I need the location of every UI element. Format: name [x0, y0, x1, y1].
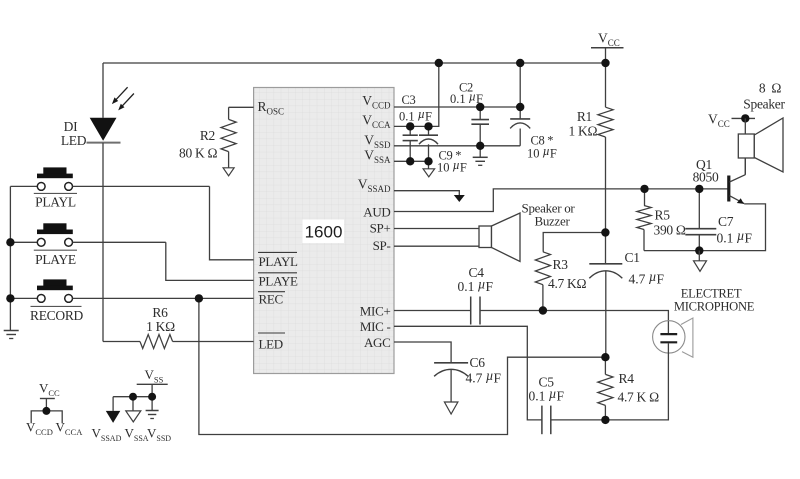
wire R3 to MIC+ line: [542, 285, 544, 311]
ground below C2: [479, 146, 481, 157]
capacitor C3: [409, 126, 411, 134]
wire PLAYL to IC: [210, 186, 254, 259]
label PLAYE: [34, 249, 77, 251]
svg-text:MICROPHONE: MICROPHONE: [674, 300, 755, 314]
svg-text:390 Ω: 390 Ω: [654, 223, 686, 238]
node legend VSS left: [129, 393, 137, 401]
svg-text:PLAYE: PLAYE: [259, 273, 299, 288]
svg-text:MIC+: MIC+: [360, 303, 391, 318]
wire MIC+ from IC: [394, 310, 470, 312]
svg-text:RECORD: RECORD: [30, 308, 84, 323]
wire C4 to microphone: [480, 311, 668, 334]
svg-text:VSS: VSS: [145, 367, 164, 385]
node R3/MIC+: [539, 306, 547, 314]
svg-text:10 µF: 10 µF: [437, 158, 467, 175]
svg-text:C7: C7: [718, 214, 734, 229]
pushbutton PLAYL: [10, 185, 37, 187]
arrow VSSAD down: [454, 195, 465, 202]
svg-text:C6: C6: [470, 355, 486, 370]
svg-text:REC: REC: [259, 291, 283, 306]
wire REC to bias node: [199, 298, 606, 434]
svg-text:R5: R5: [655, 208, 671, 223]
wire Rosc pin: [229, 106, 254, 108]
svg-text:C3: C3: [402, 93, 416, 107]
wire AUD net: [394, 189, 728, 212]
wire VCC to R1: [605, 63, 607, 107]
legend VCC symbol: [40, 398, 55, 400]
wire LED line to R6: [103, 341, 140, 343]
wire VSSA pin net: [394, 160, 429, 162]
svg-text:1 KΩ: 1 KΩ: [569, 124, 598, 139]
svg-text:0.1 µF: 0.1 µF: [458, 277, 494, 295]
svg-text:4.7 µF: 4.7 µF: [466, 368, 502, 386]
svg-text:R3: R3: [553, 257, 569, 272]
svg-text:VSSAD: VSSAD: [92, 426, 122, 444]
svg-text:1600: 1600: [305, 223, 343, 242]
node VSSD-C2: [476, 142, 484, 150]
capacitor C7: [698, 189, 700, 228]
svg-text:R1: R1: [577, 109, 592, 124]
pin label PLAYL: [258, 251, 297, 253]
wire MIC- net: [394, 326, 542, 420]
resistor R6: [140, 335, 173, 349]
svg-text:VSSD: VSSD: [147, 426, 171, 444]
svg-text:Buzzer: Buzzer: [534, 213, 570, 228]
node REC junction: [195, 294, 203, 302]
node VSSA-C3: [406, 157, 414, 165]
pushbutton PLAYE: [10, 241, 37, 243]
pushbutton RECORD: [10, 297, 37, 299]
svg-text:PLAYL: PLAYL: [35, 194, 76, 209]
wire speaker to collector: [744, 158, 746, 175]
svg-text:0.1 µF: 0.1 µF: [529, 386, 565, 404]
node VSSA-C9: [424, 157, 432, 165]
capacitor C4: [470, 297, 472, 325]
resistor R5: [644, 189, 646, 206]
wire top VCC rail: [103, 62, 606, 64]
node speaker VCC: [741, 114, 749, 122]
wire VCCA pin net: [394, 63, 439, 126]
svg-text:8050: 8050: [693, 169, 719, 184]
wire AGC net: [394, 342, 451, 362]
ground arrow below C6: [444, 402, 458, 414]
svg-text:R2: R2: [200, 128, 215, 143]
svg-text:SP+: SP+: [370, 220, 391, 235]
wire Q1 emitter path: [644, 204, 766, 251]
svg-text:10 µF: 10 µF: [527, 144, 557, 161]
svg-text:80 K Ω: 80 K Ω: [179, 146, 217, 161]
wire VCC to speaker: [744, 118, 746, 134]
svg-text:0.1 µF: 0.1 µF: [399, 107, 432, 124]
wire SP- net: [394, 245, 479, 247]
resistor R4: [604, 357, 606, 374]
node R1/C1: [601, 228, 609, 236]
wire Q1 collector: [744, 158, 746, 175]
ground legend VSSD: [146, 410, 159, 412]
svg-text:R4: R4: [619, 371, 635, 386]
svg-text:0.1 µF: 0.1 µF: [717, 228, 753, 246]
wire LED cathode down: [102, 143, 104, 342]
svg-text:AUD: AUD: [363, 204, 390, 219]
node C7 bottom: [695, 246, 703, 254]
svg-text:VCCA: VCCA: [56, 420, 84, 438]
wire PLAYE to IC: [166, 242, 254, 280]
svg-text:SP-: SP-: [373, 238, 391, 253]
node C1/R4: [601, 353, 609, 361]
resistor R1: [598, 107, 613, 137]
svg-text:ELECTRET: ELECTRET: [681, 287, 742, 301]
wire R6 to LED pin: [173, 341, 254, 343]
wire VSSAD stub: [394, 191, 459, 195]
svg-text:R6: R6: [152, 305, 168, 320]
ground arrow below C7: [698, 251, 700, 261]
svg-text:PLAYL: PLAYL: [259, 254, 299, 269]
transistor Q1: [727, 176, 730, 202]
node VCCA-C9: [424, 122, 432, 130]
capacitor C1: [605, 233, 607, 264]
wire VCCD pin net: [394, 106, 520, 108]
IC part number 1600: [303, 220, 345, 244]
svg-text:1 KΩ: 1 KΩ: [146, 319, 175, 334]
node legend VCC: [42, 407, 50, 415]
svg-text:MIC -: MIC -: [360, 319, 391, 334]
LED arrows: [115, 87, 128, 101]
capacitor C8: [519, 63, 521, 107]
svg-text:4.7 µF: 4.7 µF: [629, 269, 665, 287]
wire R1 to node: [605, 137, 607, 233]
node PLAYE rail junction: [6, 238, 14, 246]
wire node to R3: [543, 233, 605, 252]
svg-text:VCC: VCC: [598, 31, 620, 49]
node VCCD-C8: [516, 103, 524, 111]
speaker-or-buzzer symbol: [479, 226, 492, 248]
capacitor C6: [434, 362, 468, 364]
ground arrow below VSSA: [428, 161, 430, 169]
ground arrow below R2: [223, 168, 234, 176]
speaker 8ohm symbol: [738, 134, 754, 158]
legend VSS symbol: [137, 383, 168, 385]
wire left button rail: [9, 186, 11, 330]
resistor R2: [228, 107, 230, 119]
svg-text:VCC: VCC: [708, 111, 730, 129]
label RECORD: [31, 305, 82, 307]
svg-text:VSSA: VSSA: [125, 426, 149, 444]
node VCCD-C2: [476, 103, 484, 111]
svg-text:DI: DI: [64, 119, 78, 134]
node RECORD rail junction: [6, 294, 14, 302]
wire C5 to node: [551, 419, 605, 421]
power VCC top symbol: [591, 47, 624, 49]
node VCCA-C3: [406, 122, 414, 130]
svg-text:4.7 KΩ: 4.7 KΩ: [548, 276, 586, 291]
svg-text:8 Ω: 8 Ω: [759, 81, 782, 96]
pin label REC: [258, 291, 285, 293]
IC U1 1600 body: [254, 88, 394, 374]
ground below button rail: [4, 330, 19, 332]
svg-text:VCCD: VCCD: [26, 420, 53, 438]
svg-text:4.7 K Ω: 4.7 K Ω: [618, 390, 660, 405]
pin label PLAYE: [258, 272, 297, 274]
capacitor C2: [479, 107, 481, 119]
wire VSSD pin net: [394, 145, 520, 147]
wire microphone bottom: [605, 343, 668, 420]
wire SP+ net: [394, 228, 479, 230]
node R5 top: [640, 185, 648, 193]
svg-text:PLAYE: PLAYE: [35, 252, 76, 267]
node R4/C5: [601, 416, 609, 424]
LED D1: [90, 118, 117, 141]
node Q1 base / C7 top: [695, 185, 703, 193]
svg-text:LED: LED: [61, 133, 87, 148]
label PLAYL: [34, 192, 77, 194]
svg-text:AGC: AGC: [364, 335, 391, 350]
node top rail / VCC: [601, 59, 609, 67]
capacitor C9: [428, 126, 430, 134]
node top rail / C9 riser: [435, 59, 443, 67]
capacitor C5: [541, 406, 543, 435]
node top rail / C8 riser: [516, 59, 524, 67]
svg-text:LED: LED: [259, 336, 283, 351]
wire LED anode drop: [102, 63, 104, 118]
svg-text:Speaker: Speaker: [743, 97, 785, 112]
pin label LED: [258, 332, 285, 334]
arrow legend VSSA: [126, 411, 141, 422]
node legend VSS right: [148, 393, 156, 401]
svg-text:VCC: VCC: [39, 381, 60, 399]
resistor R3: [535, 252, 550, 285]
electret microphone: [653, 321, 685, 353]
svg-text:C1: C1: [625, 250, 640, 265]
arrow legend VSSAD: [106, 411, 121, 423]
